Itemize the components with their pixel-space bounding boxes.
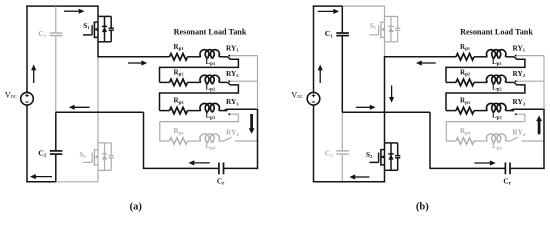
wire tank bus right of Cr <box>224 167 259 169</box>
wire Lp2 to relay <box>506 81 514 83</box>
current arrow up (source branch) <box>33 69 35 83</box>
svg-text:RY4: RY4 <box>226 128 239 137</box>
wire Lp2 to relay <box>219 81 227 83</box>
svg-text:Rp2: Rp2 <box>460 68 470 77</box>
wire RY2 open throw to rail <box>230 80 257 82</box>
relay RY3 arm (closed to rail) <box>224 109 258 110</box>
resistor Rp2 <box>170 79 188 86</box>
capacitor C1 <box>50 32 63 34</box>
relay RY4 arm (open) <box>511 137 518 141</box>
wire branch 2 input <box>160 81 170 83</box>
svg-text:C2: C2 <box>325 148 334 157</box>
svg-text:C1: C1 <box>38 29 47 38</box>
capacitor C1 <box>336 32 349 34</box>
wire C-leg lower <box>341 154 343 182</box>
wire Lp3 to relay <box>506 110 514 112</box>
wire S1 drain <box>384 6 386 16</box>
wire left vertical (top half) <box>26 5 28 92</box>
svg-text:Lp3: Lp3 <box>206 112 216 121</box>
inductor Lp1 <box>200 50 220 58</box>
wire left vertical (top half) <box>313 5 315 92</box>
wire node to tank <box>97 56 169 58</box>
current arrow up (rail) <box>538 120 541 134</box>
capacitor Cr <box>218 163 220 175</box>
wire bottom rail gray <box>56 181 99 183</box>
wire Rp3 to Lp3 <box>474 110 487 112</box>
resistor Rp4 <box>170 138 188 145</box>
relay RY1 arm (closed to next branch) <box>446 57 525 83</box>
wire Rp4 to Lp4 <box>188 140 201 142</box>
relay RY1 unused contact dot <box>515 55 517 57</box>
wire S1 source to node <box>97 42 99 57</box>
wire left vertical (bottom half) <box>26 105 28 183</box>
wire tank bus left of Cr <box>143 167 219 169</box>
svg-text:Lp4: Lp4 <box>206 142 216 151</box>
relay RY2 arm (closed to next branch) <box>446 82 525 110</box>
wire Lp1 to relay <box>219 56 227 58</box>
wire right rail gray upper <box>257 56 259 110</box>
resistor Rp2 <box>456 79 474 86</box>
svg-text:Lp2: Lp2 <box>492 83 502 92</box>
relay RY1 unused contact dot <box>228 55 230 57</box>
inductor Lp3 <box>486 103 505 111</box>
current arrow left (bottom rail) <box>354 176 369 178</box>
relay RY2 arm (closed to next branch) <box>160 82 239 110</box>
current arrow right (top rail) <box>318 10 335 12</box>
wire branch 3 input <box>446 110 456 112</box>
current arrow right (top rail) <box>64 10 80 12</box>
current arrow right (tank input) <box>128 62 143 64</box>
transistor S1 (MOSFET with body diode and snubber cap) <box>97 16 99 41</box>
resistor Rp3 <box>456 107 474 114</box>
capacitor C2 <box>336 150 349 152</box>
wire RY1 open throw to rail <box>517 55 544 57</box>
circuit (b) <box>291 5 545 212</box>
circuit (a) <box>5 5 259 212</box>
capacitor C2 <box>50 150 63 152</box>
wire C-leg to C2 <box>55 112 57 151</box>
wire Rp4 to Lp4 <box>474 140 487 142</box>
current arrow right (return mid) <box>356 106 371 108</box>
svg-text:Lp1: Lp1 <box>492 58 502 67</box>
svg-text:Lp3: Lp3 <box>492 112 502 121</box>
current arrow right (tank bus) <box>474 162 491 164</box>
resistor Rp4 <box>456 138 474 145</box>
wire Rp1 to Lp1 <box>188 56 201 58</box>
svg-text:Rp3: Rp3 <box>460 97 470 106</box>
wire Lp4 to relay <box>219 140 224 142</box>
svg-text:RY2: RY2 <box>226 69 239 78</box>
svg-text:Rp3: Rp3 <box>174 97 184 106</box>
wire C-leg upper <box>55 6 57 33</box>
wire right rail dark lower <box>543 109 545 169</box>
wire branch 2 input <box>446 81 456 83</box>
svg-text:VDC: VDC <box>5 91 17 100</box>
current arrow left (tank input) <box>421 62 436 64</box>
svg-text:Lp1: Lp1 <box>206 58 216 67</box>
svg-text:S1: S1 <box>83 22 89 30</box>
inductor Lp2 <box>200 75 220 83</box>
wire RY1 open throw to rail <box>230 55 257 57</box>
wire S2 source <box>97 170 99 182</box>
svg-text:Rp2: Rp2 <box>174 68 184 77</box>
wire C-leg lower <box>55 154 57 182</box>
current arrow left (return mid) <box>73 106 89 108</box>
current arrow left (bottom rail) <box>35 176 52 178</box>
wire RY4 throw to rail <box>522 140 544 142</box>
svg-text:C1: C1 <box>325 29 334 38</box>
node midpoint leg <box>97 57 99 143</box>
wire top rail gray segment <box>342 5 385 7</box>
wire right rail dark lower <box>257 109 259 169</box>
wire RY4 throw to rail <box>236 140 258 142</box>
capacitor Cr <box>504 163 506 175</box>
svg-text:Lp4: Lp4 <box>492 142 502 151</box>
svg-text:(b): (b) <box>416 202 429 213</box>
relay RY4 fixed contact dot <box>235 140 237 142</box>
svg-text:RY3: RY3 <box>226 97 239 106</box>
current arrow left (tank bus) <box>193 162 210 164</box>
svg-text:Rp1: Rp1 <box>174 43 184 52</box>
relay RY4 fixed contact dot <box>522 140 524 142</box>
wire Rp3 to Lp3 <box>188 110 201 112</box>
inductor Lp4 <box>200 134 220 142</box>
transistor S1 (MOSFET with body diode and snubber cap) <box>384 16 386 41</box>
wire S1 drain <box>97 6 99 16</box>
wire node to tank <box>384 56 456 58</box>
source V_DC U_a <box>21 92 34 105</box>
svg-text:RY1: RY1 <box>226 43 239 52</box>
svg-text:RY1: RY1 <box>513 43 526 52</box>
wire bottom rail <box>313 181 385 183</box>
wire S2 source <box>384 170 386 182</box>
relay RY3 unused contact dot <box>228 113 230 115</box>
svg-text:Rp1: Rp1 <box>460 43 470 52</box>
node midpoint leg <box>384 57 386 143</box>
wire S1 source to node <box>384 42 386 57</box>
wire branch 4 input <box>160 140 170 142</box>
relay RY1 arm (closed to next branch) <box>160 57 239 83</box>
svg-text:S2: S2 <box>366 151 372 159</box>
svg-text:Lp2: Lp2 <box>206 83 216 92</box>
wire Lp3 to relay <box>219 110 227 112</box>
svg-text:S1: S1 <box>370 22 376 30</box>
wire right rail gray upper <box>543 56 545 110</box>
transistor S2 (MOSFET with body diode and snubber cap) <box>97 143 99 170</box>
wire RY3 unused throw to branch 4 (gray) <box>160 114 239 141</box>
wire RY3 unused throw to branch 4 (gray) <box>446 114 525 141</box>
svg-text:S2: S2 <box>80 151 86 159</box>
svg-text:Cr: Cr <box>503 177 511 186</box>
svg-text:Rp4: Rp4 <box>460 127 471 136</box>
wire Rp1 to Lp1 <box>474 56 487 58</box>
current arrow down (rail) <box>250 114 253 129</box>
resistor Rp1 <box>456 54 474 61</box>
svg-text:RY4: RY4 <box>513 128 526 137</box>
wire C-leg middle <box>55 36 57 113</box>
wire return mid horizontal <box>342 111 430 113</box>
wire return mid horizontal <box>56 111 144 113</box>
resistor Rp3 <box>170 107 188 114</box>
svg-text:RY2: RY2 <box>513 69 526 78</box>
wire tank bus right of Cr <box>510 167 545 169</box>
wire return vertical <box>143 112 145 168</box>
wire Lp1 to relay <box>506 56 514 58</box>
wire C-leg middle <box>341 36 343 113</box>
relay RY4 arm (open) <box>224 137 231 141</box>
svg-text:C2: C2 <box>38 148 47 157</box>
wire Lp4 to relay <box>506 140 511 142</box>
wire branch 4 input <box>446 140 456 142</box>
inductor Lp2 <box>486 75 505 83</box>
inductor Lp4 <box>486 134 505 142</box>
transistor S2 (MOSFET with body diode and snubber cap) <box>384 143 386 170</box>
wire Rp2 to Lp2 <box>188 81 201 83</box>
svg-text:RY3: RY3 <box>513 97 526 106</box>
relay RY3 arm (closed to rail) <box>511 109 545 110</box>
source V_DC U_b <box>307 92 320 105</box>
wire top rail <box>313 5 343 7</box>
svg-text:Resonant Load Tank: Resonant Load Tank <box>460 28 533 37</box>
relay RY2 unused contact dot <box>515 80 517 82</box>
wire tank bus left of Cr <box>429 167 505 169</box>
svg-text:VDC: VDC <box>291 91 303 100</box>
wire left vertical (bottom half) <box>313 105 315 183</box>
inductor Lp3 <box>200 103 220 111</box>
wire branch 3 input <box>160 110 170 112</box>
wire C-leg to C2 <box>341 112 343 151</box>
svg-text:(a): (a) <box>130 202 143 213</box>
resistor Rp1 <box>170 54 188 61</box>
relay RY2 unused contact dot <box>228 80 230 82</box>
wire bottom rail dark <box>26 181 56 183</box>
svg-text:Cr: Cr <box>217 177 225 186</box>
wire C-leg upper <box>341 6 343 33</box>
svg-text:Rp4: Rp4 <box>174 127 185 136</box>
relay RY3 unused contact dot <box>515 113 517 115</box>
wire return vertical <box>429 112 431 168</box>
wire RY2 open throw to rail <box>517 80 544 82</box>
current arrow up (source branch) <box>319 69 321 83</box>
svg-text:Resonant Load Tank: Resonant Load Tank <box>174 28 247 37</box>
wire top rail <box>26 5 98 7</box>
current arrow down (leg) <box>391 86 393 99</box>
wire Rp2 to Lp2 <box>474 81 487 83</box>
inductor Lp1 <box>486 50 505 58</box>
